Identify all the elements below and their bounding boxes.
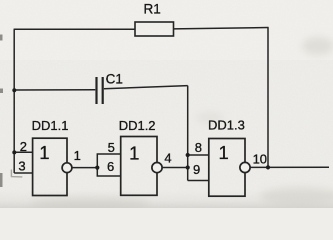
svg-text:4: 4 (164, 151, 171, 166)
svg-text:1: 1 (74, 148, 81, 163)
node at DD1.2 output / C1 vertical (186, 165, 190, 169)
svg-text:8: 8 (195, 140, 202, 155)
wire capacitor C1 to node at DD1.3 inputs (104, 86, 188, 89)
node at pin 8 tap (186, 153, 190, 157)
svg-text:DD1.1: DD1.1 (32, 118, 69, 133)
svg-text:DD1.2: DD1.2 (119, 118, 156, 133)
logic gate DD1.3 box (209, 139, 245, 197)
svg-text:10: 10 (253, 151, 267, 166)
wire top feedback from left rail to R1 (14, 28, 135, 30)
logic gate DD1.2 box (121, 137, 157, 196)
logic gate DD1.1 box (33, 138, 67, 195)
capacitor C1 (97, 77, 103, 104)
wire right rail down to output node (267, 28, 269, 168)
svg-text:6: 6 (107, 159, 114, 174)
wire bracket to pins 5 and 6 (97, 154, 120, 176)
wire pin 9 input DD1.3 (188, 180, 209, 182)
resistor R1 (135, 22, 174, 36)
node at DD1.1 output / pins 5-6 bracket (95, 166, 99, 170)
wire pin 2 input DD1.1 (14, 151, 32, 153)
svg-text:1: 1 (129, 142, 139, 163)
svg-text:9: 9 (193, 162, 200, 177)
wire pin 8 input DD1.3 (188, 154, 209, 156)
inverter bubble DD1.2 (152, 163, 162, 173)
svg-text:C1: C1 (106, 72, 123, 87)
wire output pin 1 of DD1.1 (72, 167, 97, 169)
wire vertical down to pin 9 (187, 86, 189, 181)
wire left rail (13, 29, 15, 173)
inverter bubble DD1.1 (62, 163, 72, 173)
wire R1 to right rail (174, 28, 269, 29)
svg-text:DD1.3: DD1.3 (208, 118, 245, 133)
wire pin 3 input DD1.1 (14, 172, 32, 174)
wire left rail to capacitor C1 (14, 89, 95, 91)
svg-text:1: 1 (218, 142, 228, 163)
wire output pin 4 of DD1.2 (162, 167, 188, 169)
inverter bubble DD1.3 (240, 162, 250, 172)
svg-text:2: 2 (20, 139, 27, 154)
scan artifacts (decorative) (11, 170, 22, 177)
node at C1 tap on left rail (12, 88, 16, 92)
svg-text:R1: R1 (144, 1, 161, 16)
svg-text:5: 5 (108, 140, 115, 155)
wire output pin 10 of DD1.3 to the right edge (250, 166, 329, 168)
svg-text:3: 3 (18, 158, 25, 173)
svg-text:1: 1 (39, 142, 49, 163)
node at pin 2 tap on left rail (12, 150, 16, 154)
node at feedback rail / output wire (266, 165, 270, 169)
